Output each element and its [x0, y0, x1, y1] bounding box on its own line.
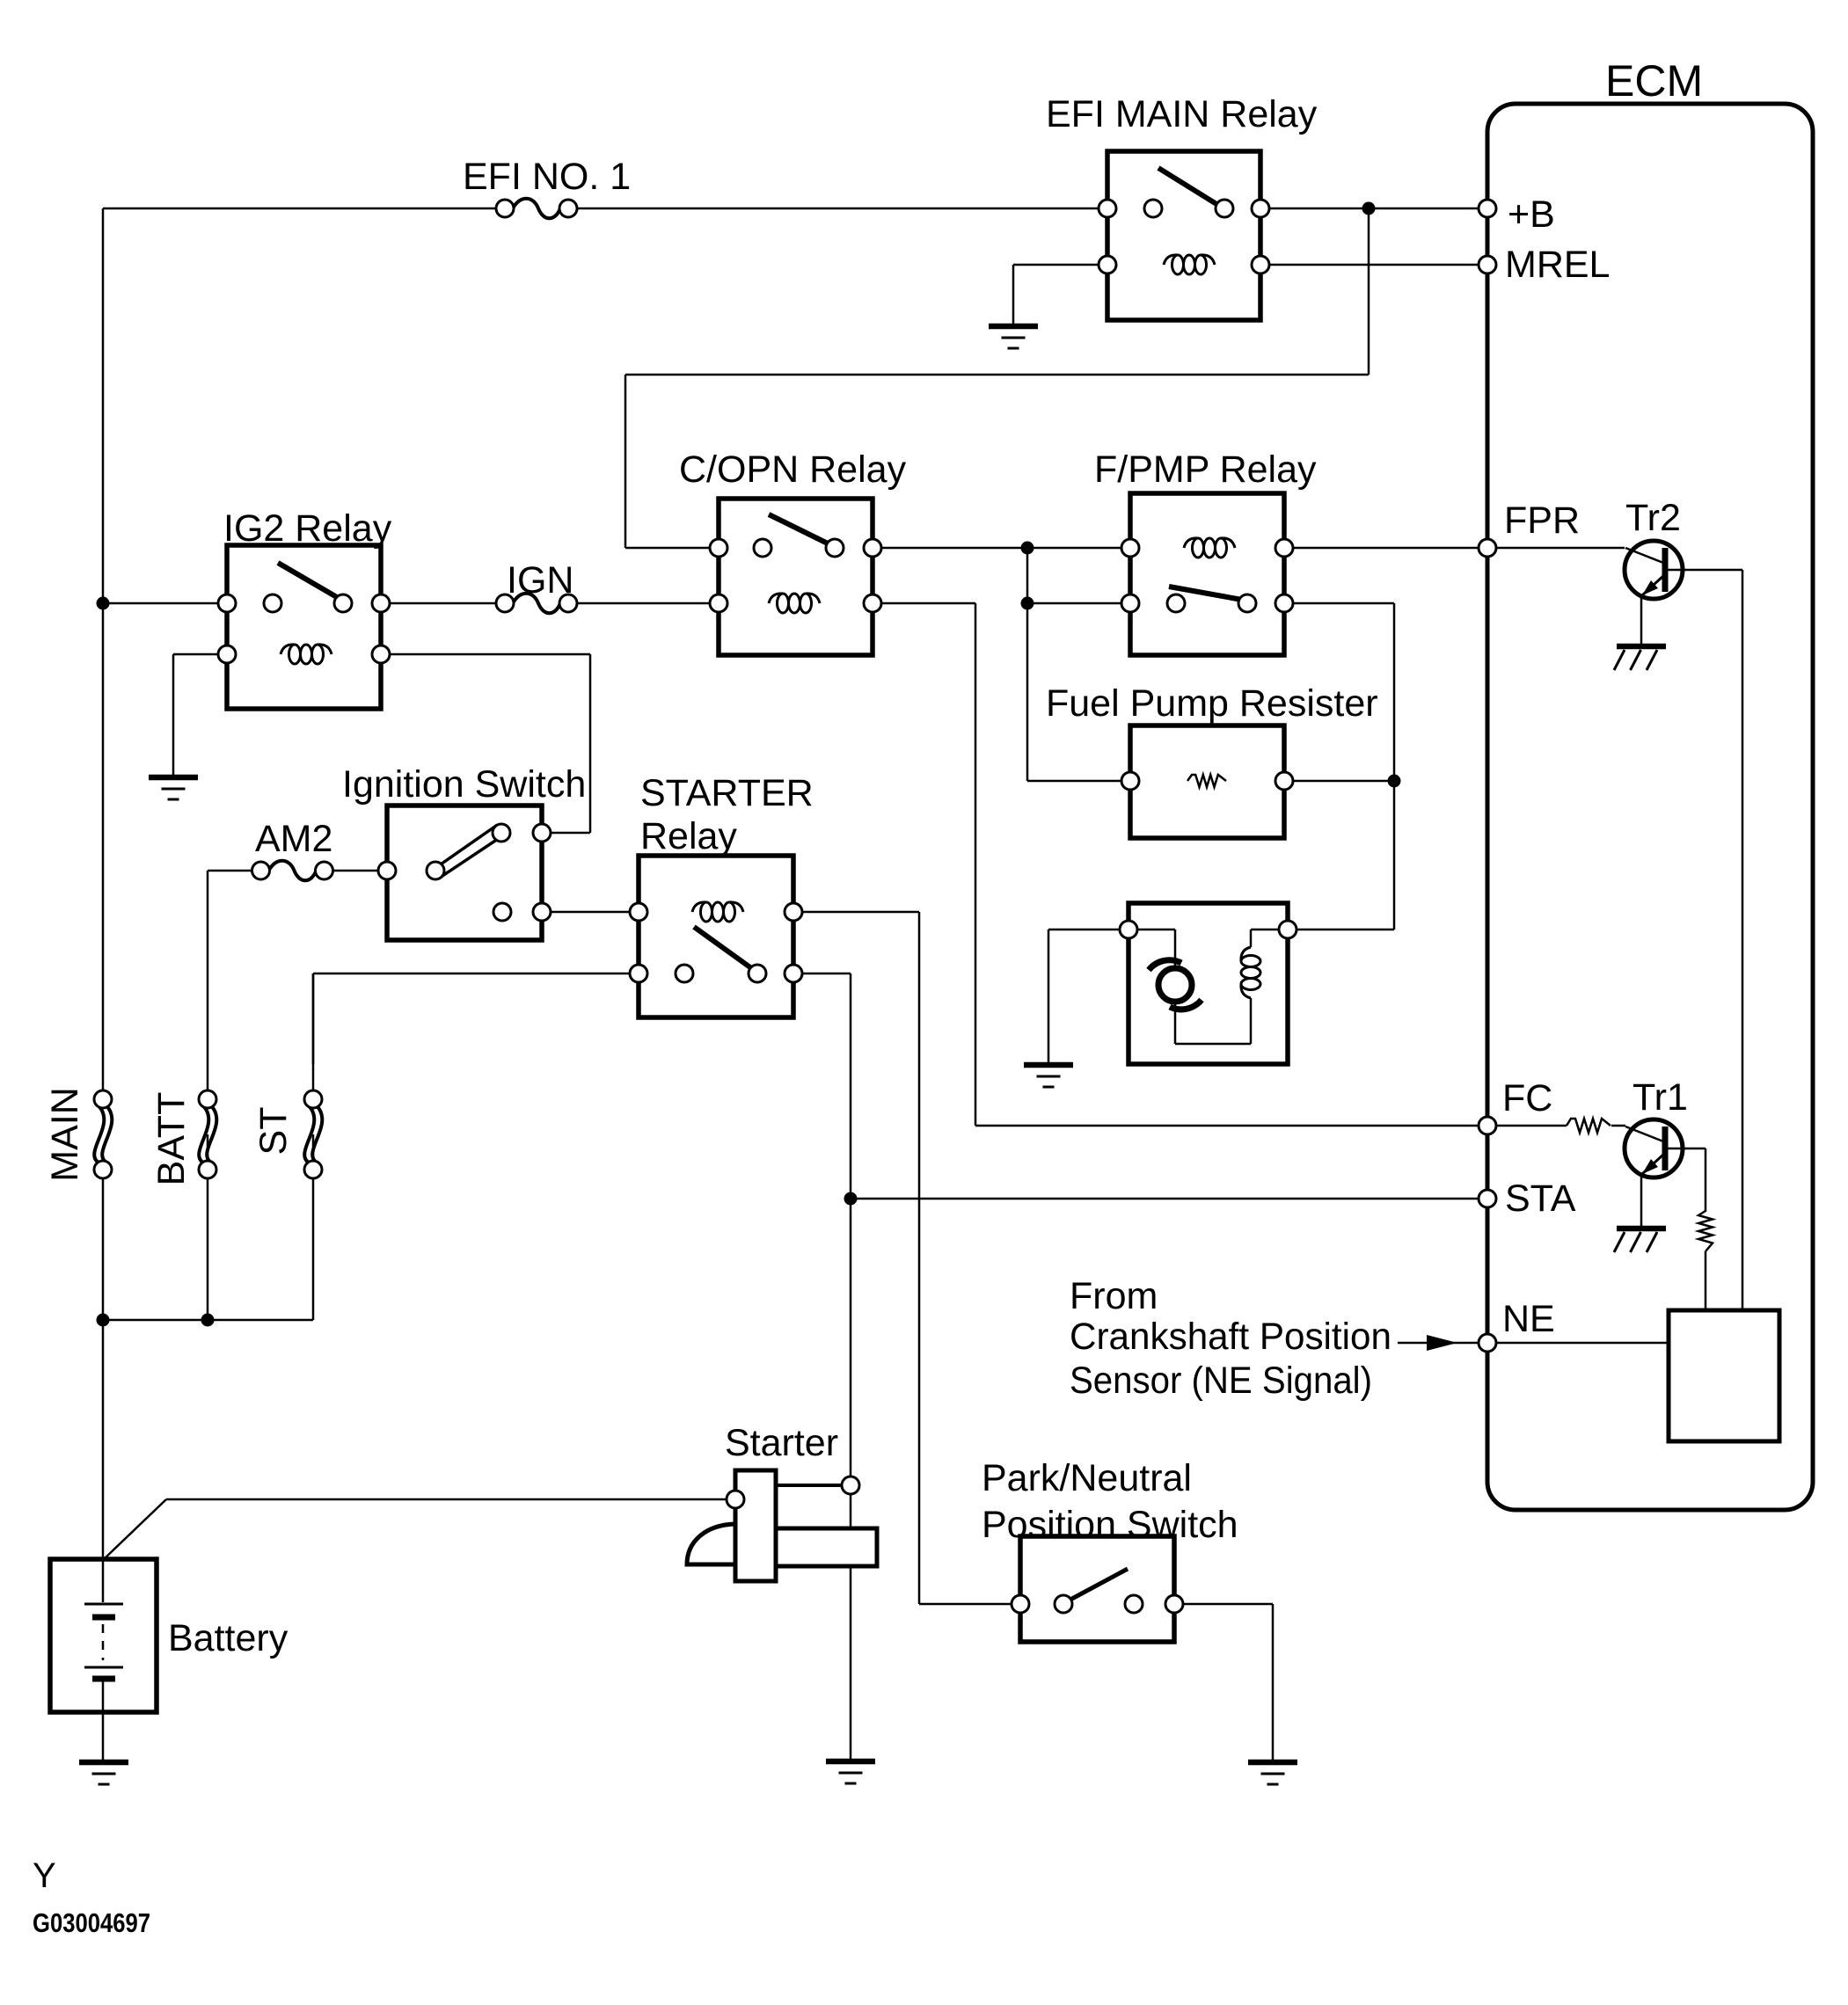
- svg-text:EFI MAIN Relay: EFI MAIN Relay: [1046, 93, 1318, 135]
- wire: BATT fuse bottom to node row: [207, 1134, 209, 1320]
- label MREL: [1505, 244, 1610, 286]
- node: main rail / IGN row junction: [97, 597, 110, 610]
- svg-text:BATT: BATT: [150, 1092, 193, 1186]
- wire: IGN fuse to C/OPN coil: [568, 602, 769, 605]
- ground (fuel pump): [1024, 1065, 1073, 1087]
- label Ignition Switch: [342, 763, 586, 806]
- ignition switch pins: [378, 824, 551, 921]
- label +B: [1508, 193, 1555, 236]
- C/OPN relay switch blade: [769, 514, 831, 545]
- wire: +B node down/left to C/OPN relay: [625, 208, 1369, 548]
- fuel pump motor and coil internals: [1129, 930, 1288, 1044]
- node: resistor output junction: [1388, 775, 1401, 788]
- node: STA junction: [844, 1192, 858, 1206]
- ground (IG2 relay coil): [149, 777, 198, 799]
- fuel pump box: [1129, 903, 1288, 1064]
- starter relay coil: [692, 902, 743, 922]
- fuse AM2: [252, 861, 333, 881]
- wire: IG2 coil right down to ignition switch: [332, 654, 590, 833]
- chassis ground (Tr2 emitter): [1614, 594, 1666, 670]
- starter relay switch blade: [694, 927, 754, 970]
- label IGN: [507, 559, 573, 601]
- park/neutral position switch box: [1020, 1536, 1174, 1642]
- IG2 relay box: [227, 545, 381, 709]
- label MAIN (rotated): [44, 1087, 86, 1182]
- ECM pin +B: [1479, 200, 1496, 217]
- label G03004697: [33, 1907, 150, 1938]
- svg-text:Y: Y: [33, 1856, 56, 1895]
- C/OPN relay box: [719, 499, 873, 655]
- wire: fuel pump resistor row (y=888): [1027, 780, 1394, 783]
- label NE: [1502, 1298, 1555, 1340]
- wire: IGN row through IG2 relay (row 686): [103, 602, 505, 605]
- fuel pump resister pins: [1121, 772, 1293, 790]
- label STA: [1505, 1177, 1576, 1220]
- wire: ignition switch upper contact to edge pin: [501, 832, 542, 835]
- transistor Tr1: [1625, 1119, 1683, 1177]
- EFI MAIN relay box: [1107, 151, 1260, 320]
- label ECM: [1605, 56, 1703, 106]
- fuel pump pins: [1120, 921, 1297, 938]
- label Tr2: [1625, 497, 1681, 539]
- ECM pin NE: [1479, 1334, 1496, 1352]
- wire: EFI MAIN relay output to +B pin: [1224, 208, 1479, 210]
- label FPR: [1504, 499, 1580, 542]
- ground (park/neutral switch): [1248, 1762, 1297, 1784]
- fuse IGN: [496, 594, 577, 614]
- wire: fuel pump right pin: [1288, 929, 1394, 931]
- wire: NE pin to NE block: [1487, 1342, 1669, 1345]
- label From Crankshaft Position Sensor (NE Signal): [1070, 1275, 1391, 1402]
- svg-text:Ignition Switch: Ignition Switch: [342, 763, 586, 806]
- wire: starter relay coil out, down to park/neutral switch: [741, 912, 1063, 1604]
- wire: FPR net to ECM FPR pin and Tr2 base: [1235, 547, 1625, 550]
- svg-text:MREL: MREL: [1505, 244, 1610, 286]
- park/neutral switch pins: [1012, 1595, 1183, 1613]
- label FC: [1502, 1077, 1552, 1119]
- fusible link MAIN: [94, 1090, 112, 1178]
- C/OPN relay coil: [769, 594, 820, 613]
- svg-text:Position Switch: Position Switch: [982, 1504, 1238, 1546]
- battery cell plates: [84, 1559, 123, 1712]
- ECM pin FC: [1479, 1117, 1496, 1134]
- wire: starter relay switch out, down to starter and STA: [757, 973, 851, 1760]
- ground (battery): [79, 1712, 128, 1784]
- svg-text:FPR: FPR: [1504, 499, 1580, 542]
- label BATT (rotated): [150, 1092, 193, 1186]
- label EFI NO. 1: [463, 156, 631, 198]
- wire: EFI relay coil to ground: [1012, 265, 1015, 324]
- node: F/PMP switch feed junction: [1021, 597, 1034, 610]
- F/PMP relay pins: [1121, 539, 1293, 612]
- wire: junction drop at x=1168 (row623 to row686 to resistor): [1026, 548, 1029, 781]
- svg-text:F/PMP Relay: F/PMP Relay: [1094, 448, 1317, 491]
- EFI MAIN relay switch blade: [1158, 168, 1216, 204]
- svg-text:FC: FC: [1502, 1077, 1552, 1119]
- label IG2 Relay: [223, 507, 392, 550]
- svg-text:AM2: AM2: [255, 818, 332, 860]
- wire: park/neutral switch to ground: [1134, 1604, 1273, 1760]
- F/PMP relay coil: [1184, 538, 1235, 558]
- wire: BATT fuse up to AM2 fuse: [208, 871, 262, 1090]
- svg-text:Starter: Starter: [725, 1422, 838, 1464]
- label ST (rotated): [252, 1107, 295, 1156]
- svg-text:G03004697: G03004697: [33, 1907, 150, 1938]
- wire: battery positive to starter solenoid: [104, 1499, 735, 1559]
- wire: ST fuse bottom to battery node row: [103, 1134, 313, 1320]
- svg-text:Tr2: Tr2: [1625, 497, 1681, 539]
- IG2 relay switch blade: [278, 563, 341, 600]
- EFI MAIN relay coil: [1164, 255, 1215, 274]
- chassis ground (Tr1 emitter): [1614, 1176, 1666, 1252]
- svg-text:Relay: Relay: [640, 815, 737, 857]
- starter motor symbol: [687, 1470, 877, 1581]
- svg-text:IG2 Relay: IG2 Relay: [223, 507, 392, 550]
- svg-text:Sensor (NE Signal): Sensor (NE Signal): [1070, 1360, 1372, 1402]
- label F/PMP Relay: [1094, 448, 1317, 491]
- starter pins: [727, 1476, 859, 1508]
- node: +B branch junction: [1362, 202, 1376, 215]
- label Park/Neutral Position Switch: [982, 1457, 1238, 1546]
- svg-text:Crankshaft Position: Crankshaft Position: [1070, 1316, 1391, 1358]
- ground (EFI MAIN relay coil): [989, 326, 1038, 348]
- node: FPR row junction x=1168: [1021, 542, 1034, 555]
- C/OPN relay pins: [710, 539, 881, 612]
- fusible link ST: [304, 1090, 322, 1178]
- resistor (FC line to Tr1 base): [1567, 1119, 1611, 1133]
- svg-text:ST: ST: [252, 1107, 295, 1156]
- fusible link BATT: [199, 1090, 216, 1178]
- label C/OPN Relay: [679, 448, 907, 491]
- starter relay pins: [630, 903, 802, 982]
- label Fuel Pump Resister: [1046, 682, 1378, 725]
- svg-text:From: From: [1070, 1275, 1158, 1317]
- node: battery positive junction: [97, 1314, 110, 1327]
- label STARTER Relay: [640, 772, 814, 857]
- ECM pin MREL: [1479, 256, 1496, 273]
- svg-text:MAIN: MAIN: [44, 1087, 86, 1182]
- svg-text:STA: STA: [1505, 1177, 1576, 1220]
- wire: node 1168 to F/PMP switch row: [1027, 602, 1176, 605]
- wire: STA row to ECM STA pin: [851, 1198, 1479, 1200]
- wire: left vertical main rail: [102, 208, 105, 1559]
- label AM2: [255, 818, 332, 860]
- wire: Tr2 collector down to NE block: [1668, 570, 1742, 1310]
- wire: Tr1 collector to resistor to NE block: [1668, 1148, 1706, 1310]
- wire: fuel pump left pin to ground: [1048, 930, 1129, 1063]
- transistor Tr2: [1625, 541, 1683, 599]
- svg-text:Battery: Battery: [168, 1617, 289, 1659]
- ignition switch box: [387, 806, 542, 940]
- ECM module box: [1487, 104, 1813, 1510]
- node: BATT fuse junction: [201, 1314, 215, 1327]
- starter relay box: [639, 856, 793, 1017]
- label Y: [33, 1856, 56, 1895]
- svg-text:NE: NE: [1502, 1298, 1555, 1340]
- wire: battery + rail top (MAIN fuse feed, y=237): [103, 208, 1153, 210]
- svg-text:Tr1: Tr1: [1633, 1076, 1688, 1119]
- wire: IG2 coil left to ground: [173, 654, 281, 775]
- fuel pump resister element: [1187, 775, 1226, 787]
- svg-text:+B: +B: [1508, 193, 1555, 236]
- wire: AM2 fuse to ignition switch: [323, 870, 435, 872]
- svg-text:Fuel Pump Resister: Fuel Pump Resister: [1046, 682, 1378, 725]
- svg-text:C/OPN Relay: C/OPN Relay: [679, 448, 907, 491]
- wire: FC row to ECM FC pin: [975, 1125, 1625, 1127]
- ECM pin FPR: [1479, 539, 1496, 557]
- wire: C/OPN coil out, down to FC row: [820, 603, 975, 1126]
- svg-text:Park/Neutral: Park/Neutral: [982, 1457, 1192, 1499]
- wire: MREL row (relay coil to MREL pin): [1013, 264, 1479, 266]
- label Tr1: [1633, 1076, 1688, 1119]
- IG2 relay pins: [218, 594, 390, 663]
- F/PMP relay switch blade: [1169, 587, 1242, 600]
- wire: ignition switch ST output to starter relay coil: [502, 911, 694, 914]
- wire: ST fuse segments: [312, 973, 315, 1090]
- ECM pin STA: [1479, 1190, 1496, 1207]
- svg-text:IGN: IGN: [507, 559, 573, 601]
- IG2 relay coil: [281, 645, 332, 664]
- EFI MAIN relay pins: [1099, 200, 1269, 273]
- label Starter: [725, 1422, 838, 1464]
- label EFI MAIN Relay: [1046, 93, 1318, 135]
- svg-text:EFI NO. 1: EFI NO. 1: [463, 156, 631, 198]
- wire: ST fuse to starter relay switch row: [313, 973, 684, 1064]
- wire: F/PMP switch out, down x=1585: [1247, 603, 1394, 930]
- battery box: [50, 1559, 157, 1712]
- NE signal processing block inside ECM: [1669, 1310, 1779, 1441]
- fuse EFI NO. 1: [496, 199, 577, 219]
- F/PMP relay box: [1130, 493, 1284, 655]
- wire: C/OPN switch out to F/PMP coil row (row 623): [835, 547, 1184, 550]
- arrow: crankshaft position sensor signal into NE pin: [1398, 1335, 1479, 1351]
- svg-text:ECM: ECM: [1605, 56, 1703, 106]
- park/neutral switch blade: [1069, 1569, 1128, 1600]
- resistor (Tr1 collector to NE block): [1698, 1211, 1713, 1251]
- ground (starter): [826, 1761, 875, 1783]
- label Battery: [168, 1617, 289, 1659]
- svg-text:STARTER: STARTER: [640, 772, 814, 814]
- ignition switch blade (double line): [438, 826, 503, 876]
- fuel pump resister box: [1130, 725, 1284, 838]
